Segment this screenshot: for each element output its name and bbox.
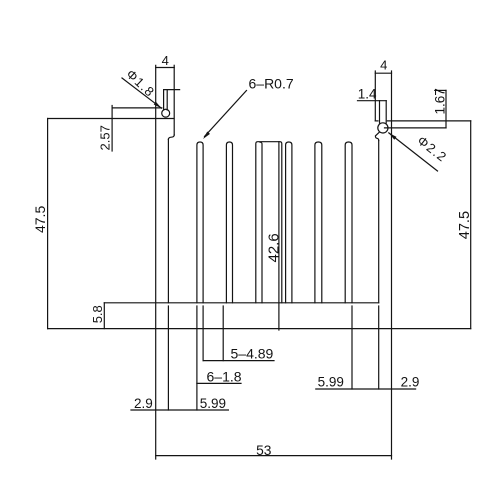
right wall inner edge lower xyxy=(378,141,380,303)
dim 47.5 right line xyxy=(470,121,472,329)
base top line xyxy=(104,302,378,304)
ext right wall inner down xyxy=(378,306,380,389)
dim 42.6 line xyxy=(278,142,280,330)
left groove circle xyxy=(162,109,170,117)
left ledge upper extension xyxy=(112,107,162,109)
ext left wall outer down xyxy=(155,329,157,459)
dim 5.99/2.9 right line xyxy=(316,388,416,390)
leader phi1.8 xyxy=(122,78,162,108)
ext left wall inner down xyxy=(167,306,169,410)
svg-text:5.8: 5.8 xyxy=(90,305,105,323)
right slot left vertical xyxy=(379,101,381,123)
right wall outer edge xyxy=(391,71,393,329)
center fin inner vertical xyxy=(260,142,262,303)
dim 2.57 line xyxy=(111,106,113,152)
leader phi2.2 xyxy=(389,133,438,171)
svg-text:47.5: 47.5 xyxy=(457,211,473,239)
dim 5-4.89 line xyxy=(203,360,274,362)
dim 47.5 left line xyxy=(47,119,49,329)
ext fin2 left down xyxy=(222,306,224,361)
svg-text:47.5: 47.5 xyxy=(32,206,48,233)
left ledge lower extension xyxy=(48,118,174,120)
left slot left vertical xyxy=(163,90,165,110)
left wall right edge lower xyxy=(167,139,169,302)
svg-text:5.99: 5.99 xyxy=(318,374,344,389)
svg-text:1.4: 1.4 xyxy=(358,86,377,101)
dim 5.99/2.9 left line xyxy=(131,409,228,411)
left slot top line xyxy=(164,89,180,91)
right wall inner edge upper xyxy=(374,71,376,121)
right wall ledge body part xyxy=(375,120,378,122)
left wall outer edge xyxy=(155,65,157,328)
right slot right vertical xyxy=(385,101,387,123)
dim 53 line xyxy=(156,455,392,457)
right circle centerline extension xyxy=(385,127,447,129)
left slot right vertical xyxy=(166,90,168,110)
svg-text:1.67: 1.67 xyxy=(433,88,448,114)
svg-text:42.6: 42.6 xyxy=(265,233,282,262)
arrowhead phi2.2 xyxy=(389,133,397,140)
dim 1.67 top tick xyxy=(435,89,446,91)
dim 1.67 line xyxy=(445,90,447,128)
svg-text:2.9: 2.9 xyxy=(401,374,420,389)
leader 6-R0.7 xyxy=(205,91,247,137)
svg-text:2.57: 2.57 xyxy=(98,125,113,150)
ext fin1 right down xyxy=(202,306,204,361)
left wall top xyxy=(156,67,175,69)
ext right wall outer down xyxy=(391,329,393,459)
left wall right edge upper xyxy=(173,65,175,135)
right wall notch below circle xyxy=(375,132,379,140)
svg-text:6–1.8: 6–1.8 xyxy=(207,368,242,384)
ext fin6 right down xyxy=(351,306,353,389)
left wall step xyxy=(168,135,174,139)
svg-text:6–R0.7: 6–R0.7 xyxy=(249,76,294,92)
fin 1 xyxy=(197,142,203,303)
center wide fin outline xyxy=(256,142,282,303)
fin 2 xyxy=(226,142,232,303)
svg-text:5.99: 5.99 xyxy=(200,396,226,411)
svg-text:4: 4 xyxy=(380,58,387,73)
fin 5 xyxy=(315,142,322,303)
right wall top xyxy=(375,72,391,74)
dim 6-1.8 line xyxy=(197,382,241,384)
arrowhead phi1.8 xyxy=(154,102,162,109)
svg-text:2.9: 2.9 xyxy=(134,396,153,411)
arrowhead 6-R0.7 xyxy=(203,132,210,140)
fin 4 xyxy=(286,142,292,303)
svg-text:53: 53 xyxy=(256,443,272,458)
fin 6 xyxy=(345,142,352,303)
ext fin1 left down xyxy=(196,306,198,410)
right ledge extension to 47.5 xyxy=(387,120,470,122)
right groove circle xyxy=(378,123,388,133)
dim 5.8 line xyxy=(103,303,105,329)
base bottom line xyxy=(48,328,471,330)
right slot top / 1.4 shelf xyxy=(358,100,387,102)
svg-text:4: 4 xyxy=(162,53,169,68)
svg-text:5–4.89: 5–4.89 xyxy=(231,346,274,362)
